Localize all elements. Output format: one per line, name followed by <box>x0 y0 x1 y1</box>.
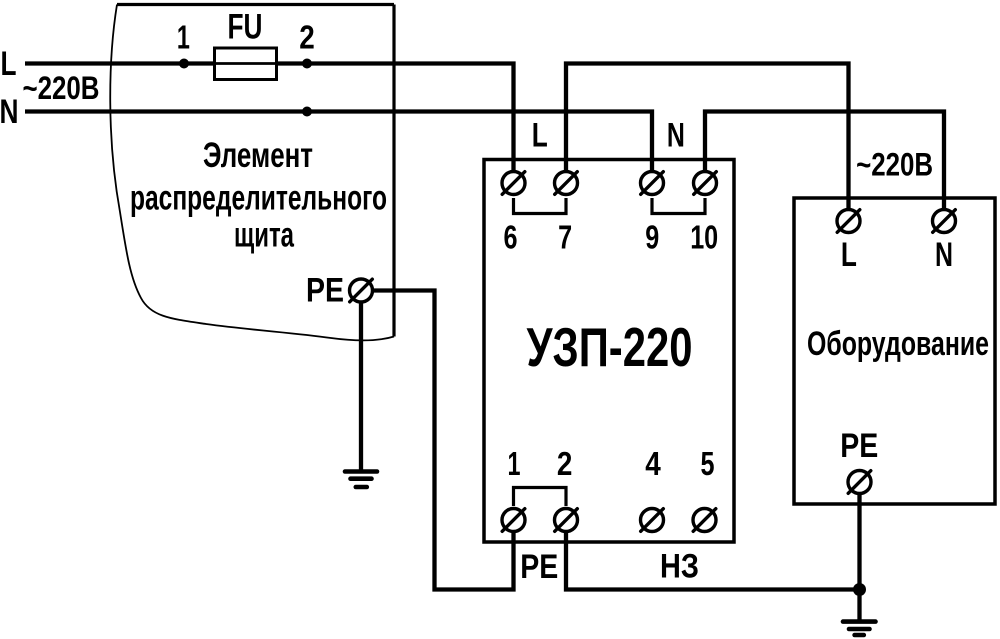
svg-text:щита: щита <box>234 216 294 255</box>
ground (right) <box>843 619 876 624</box>
wire equipment PE to right ground <box>857 493 861 620</box>
svg-text:1: 1 <box>177 19 190 56</box>
svg-text:N: N <box>935 236 953 274</box>
svg-text:PE: PE <box>520 548 558 586</box>
equipment box <box>794 198 995 504</box>
svg-text:1: 1 <box>508 445 521 482</box>
wire N line to UZP terminal 9 <box>25 112 652 172</box>
UZP-220 box <box>484 160 734 543</box>
svg-text:N: N <box>0 93 19 131</box>
terminal N (equipment) <box>933 210 956 233</box>
terminal 7 <box>555 172 578 195</box>
wire UZP terminal 10 to equipment N <box>705 112 944 210</box>
wire UZP terminal 7 to equipment L <box>566 64 849 210</box>
svg-text:N: N <box>667 117 685 155</box>
svg-text:6: 6 <box>504 219 518 256</box>
terminal 9 <box>641 172 664 195</box>
terminal 2 <box>555 509 578 532</box>
svg-text:L: L <box>532 117 548 155</box>
distribution board box (torn outline) <box>117 3 394 6</box>
svg-text:L: L <box>841 236 857 274</box>
svg-text:5: 5 <box>701 445 715 482</box>
wire L line after fuse to UZP terminal 6 <box>277 64 514 172</box>
ground (left) <box>345 469 377 474</box>
svg-text:распределительного: распределительного <box>130 179 387 218</box>
bracket terminals 9-10 <box>652 198 705 214</box>
terminal L (equipment) <box>837 210 860 233</box>
svg-text:Оборудование: Оборудование <box>807 325 989 363</box>
wire PE terminal to left ground <box>359 301 363 470</box>
svg-text:~220В: ~220В <box>23 70 100 106</box>
svg-text:10: 10 <box>690 219 718 256</box>
svg-text:FU: FU <box>228 8 263 47</box>
svg-text:PE: PE <box>840 427 878 465</box>
wire L line top <box>25 61 214 65</box>
terminal 5 <box>693 509 716 532</box>
wire fuse through-line <box>214 62 277 65</box>
svg-text:PE: PE <box>306 272 344 310</box>
node 1 dot <box>179 59 189 69</box>
node dot on N line <box>302 107 312 117</box>
svg-text:L: L <box>1 45 17 83</box>
terminal 4 <box>641 509 664 532</box>
svg-text:2: 2 <box>299 19 315 56</box>
bracket terminals 6-7 <box>514 198 567 214</box>
bracket terminals 1-2 <box>514 488 567 507</box>
svg-text:9: 9 <box>645 219 659 256</box>
wire PE terminal to UZP terminal 1 <box>373 291 514 590</box>
terminal 1 <box>502 509 525 532</box>
svg-text:7: 7 <box>558 219 572 256</box>
junction dot bottom right <box>853 583 866 596</box>
terminal PE (equipment) <box>848 471 871 494</box>
svg-text:НЗ: НЗ <box>660 548 699 586</box>
svg-text:Элемент: Элемент <box>203 136 313 175</box>
svg-text:~220В: ~220В <box>856 147 933 183</box>
fuse FU <box>215 48 277 80</box>
terminal 10 <box>694 172 717 195</box>
node 2 dot <box>302 59 312 69</box>
svg-text:4: 4 <box>645 445 661 482</box>
svg-text:2: 2 <box>557 445 573 482</box>
terminal PE (distribution board) <box>350 279 373 302</box>
terminal 6 <box>502 172 525 195</box>
svg-text:УЗП-220: УЗП-220 <box>527 316 693 378</box>
wire UZP terminal 2 to junction <box>566 532 860 590</box>
